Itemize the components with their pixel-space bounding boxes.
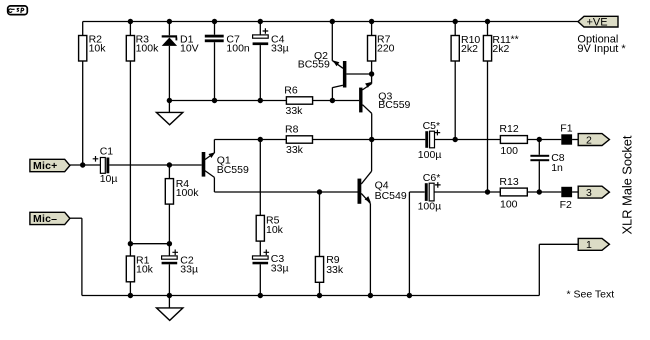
svg-text:F1: F1 <box>560 123 572 135</box>
svg-text:R12: R12 <box>499 123 518 135</box>
wire Q1 collector to Q4 base <box>214 191 357 193</box>
wire R6 to Q3 base <box>313 100 360 102</box>
svg-text:* See Text: * See Text <box>567 288 615 300</box>
ground (lower) <box>157 296 183 321</box>
node R7/Q2 base/Q3 emitter <box>369 71 374 76</box>
wire R12 to F1 <box>527 139 561 141</box>
wire Q1 emitter branch down to R5 <box>259 140 261 216</box>
svg-text:10k: 10k <box>266 224 284 236</box>
svg-text:2k2: 2k2 <box>461 43 478 55</box>
svg-text:100µ: 100µ <box>418 149 442 161</box>
capacitor C7 <box>205 22 250 101</box>
node dots on ground rail <box>128 293 412 298</box>
svg-text:100n: 100n <box>226 42 250 54</box>
capacitor C1 <box>93 145 118 185</box>
svg-text:100k: 100k <box>136 42 160 54</box>
svg-text:3: 3 <box>586 187 592 199</box>
wire R8 to C5 <box>313 139 426 141</box>
pin 1 tag <box>578 238 609 251</box>
wire bias node row (R3/R1/C2/R4) <box>130 243 169 245</box>
resistor R13 <box>499 176 527 211</box>
wire C1 to Q1 base <box>109 164 201 166</box>
node R11 bottom <box>485 189 490 194</box>
svg-text:R13: R13 <box>499 176 518 188</box>
svg-text:BC559: BC559 <box>298 59 330 71</box>
svg-text:BC559: BC559 <box>217 164 249 176</box>
ground (upper) <box>156 101 182 125</box>
svg-text:220: 220 <box>377 42 395 54</box>
svg-text:R6: R6 <box>284 85 298 97</box>
svg-text:100µ: 100µ <box>418 201 442 213</box>
wire bottom ground rail <box>82 295 539 297</box>
resistor R12 <box>499 123 527 157</box>
svg-text:100: 100 <box>500 145 518 157</box>
fuse F1 <box>560 123 572 145</box>
svg-text:33µ: 33µ <box>271 42 289 54</box>
resistor R6 <box>284 85 312 118</box>
resistor R4 <box>165 165 199 244</box>
svg-text:2: 2 <box>586 134 592 146</box>
svg-text:10V: 10V <box>180 42 199 54</box>
capacitor C4 <box>253 22 289 101</box>
svg-text:Mic+: Mic+ <box>33 160 57 172</box>
resistor R9 <box>315 192 343 296</box>
svg-text:10k: 10k <box>136 263 154 275</box>
node dots on output row 1 <box>258 137 542 142</box>
capacitor C6 <box>418 172 442 213</box>
svg-text:F2: F2 <box>560 199 572 211</box>
svg-text:10µ: 10µ <box>100 173 118 185</box>
svg-text:2k2: 2k2 <box>492 43 509 55</box>
resistor R8 <box>285 124 313 157</box>
svg-text:C5*: C5* <box>423 120 441 132</box>
capacitor C2 <box>162 244 198 296</box>
resistor R11 <box>483 22 518 193</box>
resistor R2 <box>79 22 107 166</box>
transistor Q1 <box>202 140 249 193</box>
svg-text:R8: R8 <box>285 124 299 136</box>
node R4 top <box>167 162 172 167</box>
node R3/R1 <box>128 241 133 246</box>
svg-text:1: 1 <box>586 239 592 251</box>
pin 2 tag <box>578 134 609 147</box>
node R9 top <box>317 189 322 194</box>
wire ground rail to pin 1 tag <box>539 244 578 295</box>
node C2/R4 <box>167 241 172 246</box>
svg-text:100k: 100k <box>176 187 200 199</box>
wire F2 to pin 3 tag <box>572 191 578 193</box>
wire R13 to F2 <box>527 191 561 193</box>
transistor Q2 <box>298 22 372 101</box>
wire Q1 emitter row to R8 <box>214 139 286 141</box>
resistor R7 <box>368 22 395 75</box>
ground bus (D1/C7/C4 bottoms to R6) <box>169 100 286 102</box>
node dots on ground bus <box>167 98 335 103</box>
wire C6 ground leg <box>409 192 424 296</box>
wire C6 to R13 <box>435 191 501 193</box>
svg-text:33k: 33k <box>286 105 304 117</box>
wire F1 to pin 2 tag <box>572 139 578 141</box>
capacitor C8 <box>530 140 564 193</box>
wire Mic+ to C1 <box>70 164 100 166</box>
transistor Q4 <box>358 140 407 296</box>
svg-text:BC559: BC559 <box>378 99 410 111</box>
capacitor C5 <box>418 120 442 161</box>
pin 3 tag <box>578 186 609 199</box>
svg-text:BC549: BC549 <box>375 190 407 202</box>
svg-text:33k: 33k <box>286 144 304 156</box>
wire top +VE rail <box>83 21 578 23</box>
zener diode D1 <box>162 22 199 101</box>
resistor R3 <box>126 22 159 244</box>
resistor R1 <box>126 244 153 296</box>
svg-text:33µ: 33µ <box>180 263 198 275</box>
svg-text:+VE: +VE <box>587 16 608 28</box>
node C8 bottom <box>537 189 542 194</box>
svg-text:C6*: C6* <box>423 172 441 184</box>
resistor R5 <box>256 215 283 256</box>
svg-text:**: ** <box>511 33 519 45</box>
svg-text:10k: 10k <box>89 42 107 54</box>
ESP logo <box>8 6 28 15</box>
svg-text:C1: C1 <box>100 145 114 157</box>
svg-text:9V Input *: 9V Input * <box>577 43 626 55</box>
Mic- input tag <box>30 212 70 225</box>
fuse F2 <box>560 187 573 211</box>
transistor Q3 <box>359 74 410 140</box>
svg-text:XLR Male Socket: XLR Male Socket <box>619 135 634 234</box>
svg-text:33µ: 33µ <box>271 263 289 275</box>
capacitor C3 <box>253 250 289 296</box>
Mic+ input tag <box>30 159 70 172</box>
svg-text:1n: 1n <box>551 162 563 174</box>
wire Mic- down to ground rail <box>70 218 82 295</box>
wire C5 to R12 <box>435 139 501 141</box>
svg-text:Mic–: Mic– <box>33 213 57 225</box>
+VE power tag <box>577 16 626 55</box>
svg-text:100: 100 <box>500 198 518 210</box>
node Mic+/R2 <box>80 162 85 167</box>
node dots on top rail <box>128 19 491 24</box>
svg-text:33k: 33k <box>326 264 344 276</box>
resistor R10 <box>451 22 480 140</box>
